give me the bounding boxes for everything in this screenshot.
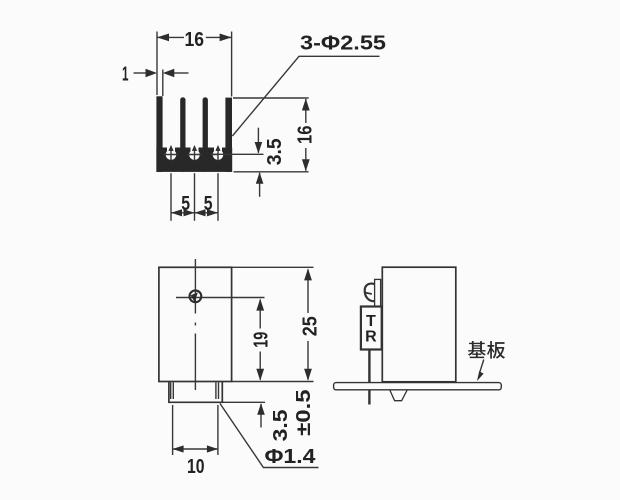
svg-text:25: 25 [299, 316, 321, 336]
svg-text:19: 19 [251, 332, 273, 348]
svg-text:10: 10 [187, 456, 205, 478]
svg-text:T: T [366, 313, 376, 330]
svg-text:Φ1.4: Φ1.4 [265, 446, 317, 468]
svg-text:3.5: 3.5 [270, 409, 292, 441]
svg-text:5: 5 [204, 193, 213, 215]
svg-text:3-Φ2.55: 3-Φ2.55 [300, 33, 386, 55]
svg-text:16: 16 [185, 29, 205, 51]
svg-text:R: R [365, 328, 377, 345]
svg-text:±0.5: ±0.5 [293, 389, 315, 436]
svg-text:3.5: 3.5 [264, 138, 286, 165]
svg-text:5: 5 [181, 193, 190, 215]
svg-text:1: 1 [122, 64, 129, 86]
svg-text:16: 16 [295, 126, 317, 145]
